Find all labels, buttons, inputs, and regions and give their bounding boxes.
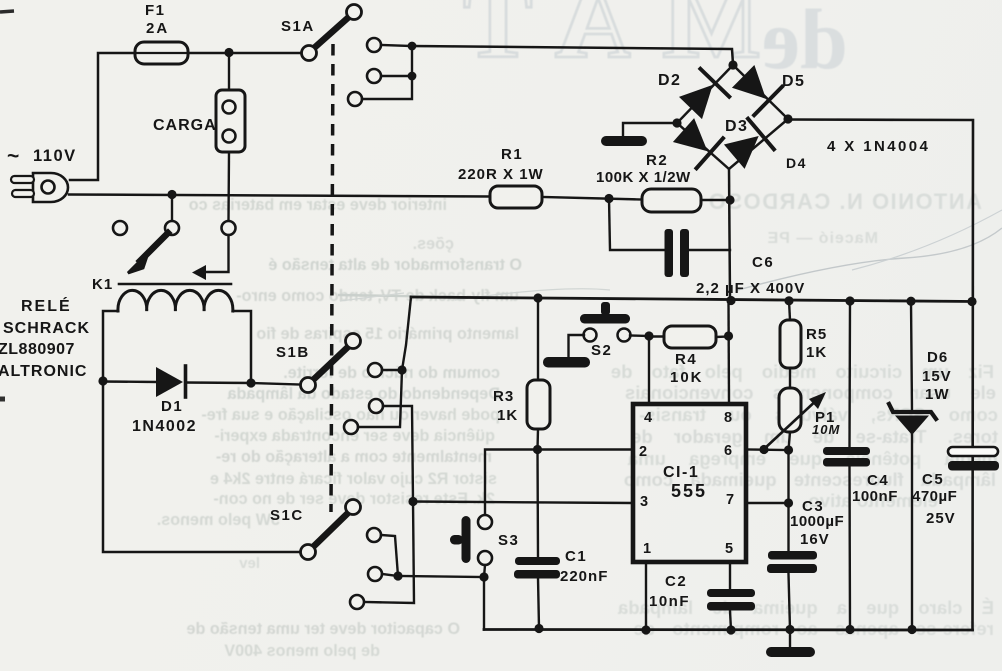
pin 8 [724, 410, 732, 426]
capacitor C6 [665, 229, 690, 277]
label C5 volt [926, 510, 956, 527]
node rail right [967, 297, 976, 306]
resistor R2 [642, 189, 701, 212]
label D4 [786, 155, 807, 171]
arrow mechanical pull [192, 235, 229, 280]
node pin6/P1 [784, 445, 793, 454]
label R5 [806, 326, 827, 343]
wire bridge left to bar [623, 123, 677, 137]
label ALTRONIC [0, 363, 87, 380]
svg-text:RELÉ: RELÉ [21, 296, 72, 315]
svg-text:1N4002: 1N4002 [132, 418, 197, 435]
svg-text:C4: C4 [867, 472, 889, 489]
svg-text:CI-1: CI-1 [663, 464, 699, 481]
label 1N4002 [132, 418, 197, 435]
label RELE [21, 296, 72, 315]
svg-text:4 X 1N4004: 4 X 1N4004 [827, 138, 930, 155]
pin 2 [639, 444, 647, 460]
wire S1C mid throw [382, 574, 398, 576]
wire top rail to bridge [412, 46, 733, 64]
node trigger junction [533, 445, 542, 454]
wire S3 bottom [484, 565, 485, 630]
node D6 ground [907, 625, 916, 634]
wire D6 column [911, 301, 912, 629]
label S1A [281, 18, 315, 35]
resistor R3 [527, 380, 550, 429]
node pin7 [784, 498, 793, 507]
svg-text:D4: D4 [786, 155, 807, 171]
svg-text:470µF: 470µF [912, 488, 957, 505]
wire K1 to S1B [251, 383, 300, 385]
wire bottom rail [484, 628, 973, 631]
wire pin7 [746, 502, 789, 504]
switch S1A [302, 5, 362, 61]
svg-text:100K X 1/2W: 100K X 1/2W [596, 169, 691, 186]
wire C6 left branch [609, 199, 665, 251]
label 4X1N4004 [827, 138, 930, 155]
diode D1 [156, 366, 186, 397]
wire AC main line [69, 195, 490, 197]
label C4 [867, 472, 889, 489]
wire output pin3 [413, 502, 631, 504]
label D6 volt [922, 368, 952, 385]
wire coil left leg [103, 311, 118, 381]
svg-text:C2: C2 [665, 573, 687, 590]
svg-text:C6: C6 [752, 254, 774, 271]
label S3 [498, 532, 519, 549]
pin 4 [644, 410, 652, 426]
label 110V [7, 145, 77, 168]
label 100KX12W [596, 169, 691, 186]
node S1A tie dots [408, 42, 417, 81]
S1C throw contacts [350, 528, 382, 609]
wire timing column [789, 450, 791, 630]
label D2 [658, 72, 681, 89]
diode D4 [721, 119, 774, 172]
IC 555 box U1 [633, 404, 746, 562]
wire trigger to S3 [485, 450, 538, 516]
svg-text:15V: 15V [922, 368, 952, 385]
label C2 [665, 573, 687, 590]
wire left column down [103, 381, 300, 552]
node bridge right [783, 114, 792, 123]
dashed link line [331, 44, 333, 512]
svg-text:16V: 16V [800, 531, 830, 548]
pin 6 [724, 443, 732, 459]
label 2A [146, 20, 169, 37]
node S3 ground tie [479, 572, 488, 581]
relay contacts K1 [113, 221, 236, 235]
relay core bar [119, 283, 231, 286]
wire pin1 down [645, 562, 647, 630]
potentiometer P1 [764, 388, 826, 449]
svg-text:D5: D5 [782, 73, 805, 90]
svg-text:K1: K1 [92, 276, 113, 293]
label R5 value [806, 344, 827, 361]
svg-text:100nF: 100nF [852, 488, 898, 505]
relay K1 lever [128, 233, 168, 273]
label C4 value [852, 488, 898, 505]
switch S1B [301, 334, 361, 393]
svg-text:S1A: S1A [281, 18, 315, 35]
diode D3 [670, 115, 723, 168]
zener D6 [889, 404, 936, 435]
label CARGA [153, 117, 217, 134]
capacitor C3 [767, 551, 817, 573]
svg-text:10nF: 10nF [649, 593, 690, 610]
wire S1A contacts tie [362, 45, 412, 99]
svg-text:C1: C1 [565, 548, 587, 565]
label C1 value [560, 568, 608, 585]
node pin8/R4 [724, 331, 733, 340]
wire mid rail stub down [358, 297, 411, 427]
node pin1 ground [641, 625, 650, 634]
label C6 [752, 254, 774, 271]
svg-text:10K: 10K [670, 369, 704, 386]
svg-text:D1: D1 [161, 398, 183, 415]
wire C1 bottom [538, 578, 539, 628]
label C3 volt [800, 531, 830, 548]
label R3 value [497, 407, 518, 424]
svg-text:ZL880907: ZL880907 [0, 341, 75, 358]
fuse F1 [135, 42, 188, 64]
wire plug to fuse [70, 53, 135, 180]
label C3 value [790, 513, 844, 530]
label C5 [922, 471, 944, 488]
svg-text:6: 6 [724, 443, 732, 459]
wire C1 column [536, 450, 539, 558]
wire carga bottom [227, 152, 230, 221]
wire R5 to P1 [789, 368, 791, 389]
svg-text:~: ~ [7, 145, 19, 168]
svg-text:ALTRONIC: ALTRONIC [0, 363, 87, 380]
svg-text:25V: 25V [926, 510, 956, 527]
label C3 [802, 498, 824, 515]
bridge diamond [677, 65, 788, 169]
node coil right [246, 378, 255, 387]
label ZL880907 [0, 341, 75, 358]
wire S2 right lead [630, 334, 649, 337]
node S1C tie [393, 571, 402, 580]
node rail R5 [784, 296, 793, 305]
ground bar bridge [601, 136, 647, 146]
label R3 [493, 388, 514, 405]
svg-text:S2: S2 [591, 342, 612, 359]
diode D5 [729, 62, 782, 115]
svg-text:1W: 1W [925, 386, 950, 403]
wire S1B mid throw to output [364, 406, 414, 603]
switch S3 [450, 515, 492, 565]
wire R3 column top [537, 298, 539, 380]
svg-text:R1: R1 [501, 146, 523, 163]
capacitor C1 [514, 557, 560, 579]
label P1 [815, 409, 835, 426]
label D6 [927, 349, 948, 366]
wire pin6 [746, 448, 789, 451]
wire R4 leads [649, 335, 729, 338]
pin 7 [726, 492, 734, 508]
node bridge top [728, 60, 737, 69]
svg-text:D3: D3 [725, 118, 748, 135]
node junction fuse/carga [224, 48, 233, 57]
pin 1 [643, 541, 651, 557]
node bridge left [672, 118, 681, 127]
switch S1C [301, 500, 361, 560]
wire pin8 up [727, 301, 730, 405]
label S1C [270, 507, 304, 524]
wire bridge right to rail [788, 120, 973, 631]
wire K1 common drop [171, 195, 173, 222]
svg-text:S1B: S1B [276, 344, 310, 361]
label R2 [646, 152, 668, 169]
label C6 value [696, 280, 805, 297]
label D3 [725, 118, 748, 135]
wire D1 cathode [186, 381, 252, 384]
label S1B [276, 344, 310, 361]
pushbutton S2 [580, 302, 631, 342]
svg-text:3: 3 [640, 494, 648, 510]
label D1 [161, 398, 183, 415]
capacitor C2 [707, 589, 755, 611]
node output corner [408, 497, 417, 506]
svg-text:110V: 110V [33, 147, 77, 165]
svg-text:2: 2 [639, 444, 647, 460]
resistor R5 [780, 320, 801, 368]
wire pin5 down [730, 562, 731, 630]
ground bar S2 [543, 357, 590, 368]
svg-text:220nF: 220nF [560, 568, 608, 585]
label R4 [675, 351, 697, 368]
wire S1B top throw [382, 369, 402, 371]
label C2 value [649, 593, 690, 610]
svg-text:S3: S3 [498, 532, 519, 549]
svg-text:C5: C5 [922, 471, 944, 488]
resistor R4 [664, 326, 716, 348]
svg-text:1K: 1K [806, 344, 827, 361]
svg-text:1K: 1K [497, 407, 518, 424]
wire bridge bottom drop [729, 169, 730, 300]
label C5 value [912, 488, 957, 505]
label C1 [565, 548, 587, 565]
svg-text:R4: R4 [675, 351, 697, 368]
wire mid rail [411, 297, 973, 302]
wire C4 column [848, 301, 851, 630]
svg-text:F1: F1 [145, 2, 166, 19]
node S1B throw junction [397, 365, 406, 374]
node pin4/R4 [644, 331, 653, 340]
relay coil K1 [118, 290, 233, 311]
svg-text:R2: R2 [646, 152, 668, 169]
load CARGA [216, 90, 245, 152]
S1B throw contacts [344, 363, 383, 434]
ground stub C3 [766, 630, 815, 658]
wire C6 right branch [689, 249, 730, 251]
svg-text:D2: D2 [658, 72, 681, 89]
pin 3 [640, 494, 648, 510]
wire R1 to R2 [542, 197, 642, 200]
scratch marks [338, 295, 515, 298]
node R2 right [725, 195, 734, 204]
node wiper [759, 445, 768, 454]
wire D1 anode [103, 380, 157, 383]
label R4 value [670, 369, 704, 386]
plug AC 110V [11, 173, 68, 202]
node coil left [98, 376, 107, 385]
svg-text:220R X 1W: 220R X 1W [458, 166, 544, 183]
label SCHRACK [3, 320, 90, 337]
svg-text:2,2 µF X 400V: 2,2 µF X 400V [696, 280, 805, 297]
label 220RX1W [458, 166, 544, 183]
label CI-1 [663, 464, 699, 481]
label D5 [782, 73, 805, 90]
node C3 ground [785, 625, 794, 634]
wire P1 bottom [789, 432, 791, 450]
svg-text:555: 555 [671, 481, 707, 501]
svg-text:R5: R5 [806, 326, 827, 343]
svg-text:S1C: S1C [270, 507, 304, 524]
wire S1C tie to S3 [398, 576, 484, 577]
node R2 left [604, 194, 613, 203]
wire S2 to ground bar [569, 335, 585, 358]
node C4 ground [845, 625, 854, 634]
label D6 watt [925, 386, 950, 403]
label R1 [501, 146, 523, 163]
diode D2 [676, 69, 729, 122]
resistor R1 [490, 186, 542, 208]
wire R2 right lead [701, 199, 730, 201]
svg-text:8: 8 [724, 410, 732, 426]
node rail C4 [845, 296, 854, 305]
wire fuse to S1A [188, 52, 301, 55]
label F1 [145, 2, 166, 19]
S1A throw contacts [348, 38, 381, 106]
wire carga top [228, 53, 230, 91]
label 555 [671, 481, 707, 501]
capacitor C5 [948, 447, 999, 471]
label S2 [591, 342, 612, 359]
label K1 [92, 276, 113, 293]
svg-text:1000µF: 1000µF [790, 513, 844, 530]
svg-text:D6: D6 [927, 349, 948, 366]
wire pin4 up [648, 336, 650, 404]
node AC/K1 junction [167, 190, 176, 199]
wire R5 top [789, 301, 790, 320]
svg-text:CARGA: CARGA [153, 117, 217, 134]
svg-text:4: 4 [644, 410, 652, 426]
svg-text:R3: R3 [493, 388, 514, 405]
node rail R3 [533, 293, 542, 302]
wire coil right leg [233, 311, 251, 383]
pin 5 [725, 541, 733, 557]
node C1 ground [534, 624, 543, 633]
svg-text:10M: 10M [812, 422, 840, 437]
wire R3 bottom to pin2 [538, 429, 632, 450]
node pin5 ground [726, 625, 735, 634]
svg-text:5: 5 [725, 541, 733, 557]
svg-text:SCHRACK: SCHRACK [3, 320, 90, 337]
svg-text:1: 1 [643, 541, 651, 557]
svg-text:7: 7 [726, 492, 734, 508]
capacitor C4 [823, 447, 870, 467]
svg-text:2A: 2A [146, 20, 169, 37]
node rail D6 [906, 297, 915, 306]
node rail 555 [726, 296, 735, 305]
wire S1C top throw [381, 535, 398, 576]
label P1 value [812, 422, 840, 437]
